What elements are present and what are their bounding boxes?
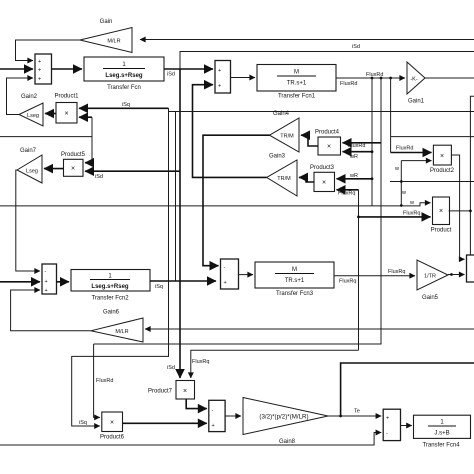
svg-text:Product5: Product5 [61,152,86,158]
svg-text:Transfer Fcn2: Transfer Fcn2 [91,296,129,302]
svg-text:iSd: iSd [167,72,175,78]
wire FluxRq vertical x=358.5 [358,190,360,350]
gain Gain (M/LR) top-left [80,19,132,53]
wire long horizontal line y=111.5 [169,111,474,113]
svg-text:Transfer Fcn: Transfer Fcn [107,85,141,91]
wire Sum7 output to Transfer Fcn4 [401,425,412,427]
svg-text:+: + [386,416,389,422]
wire Product5 output to Gain7 [44,168,64,170]
sum Sum block Sum3 (bottom left) [42,264,57,294]
svg-text:FluxRq: FluxRq [403,211,420,217]
wire w vertical x=401.3 from long w line [400,161,402,206]
svg-text:FluxRd: FluxRd [340,81,357,87]
wire w branch into Product1 input2 [79,116,92,118]
product Product1 [54,94,79,124]
gain Gain4 (TR/M) [270,111,300,152]
wire w vertical x=92 [91,117,93,163]
svg-text:Product4: Product4 [315,130,340,136]
svg-text:J.s+B: J.s+B [434,431,449,437]
svg-text:w: w [401,190,406,196]
product Product4 [315,130,341,156]
svg-text:Lseg.s+Rseg: Lseg.s+Rseg [91,284,129,290]
svg-text:FluxRd: FluxRd [396,146,413,152]
svg-text:-: - [224,265,226,271]
wire Transfer Fcn2 output iSq to Sum4 [150,280,216,282]
node junction dots on FluxRd wire [371,77,374,80]
wire Gain4 output down into Sum4 first input [203,135,270,266]
product Product5 [61,152,86,176]
wire long horizontal y=181.5 right portion [390,181,474,183]
svg-text:M: M [294,70,299,76]
svg-text:Gain: Gain [100,19,113,25]
wire Gain2 output loop to Sum1 third input [7,78,34,115]
wire feedback from right edge down to Sum5 top [470,96,474,255]
svg-text:FluxRd: FluxRd [348,143,365,149]
wire Sum2 output to Transfer Fcn1 [231,77,256,79]
svg-text:+: + [45,288,48,294]
wire vSq input from left edge [0,281,40,283]
wire iSq vertical x=170.5 [168,108,170,356]
svg-text:+: + [218,68,221,74]
sum Sum block Sum4 [221,259,239,289]
svg-text:Product6: Product6 [100,435,125,441]
wire Transfer Fcn output iSd to Sum2 [164,68,213,70]
svg-text:Gain6: Gain6 [103,310,120,316]
svg-text:FluxRd: FluxRd [96,378,113,384]
gain Gain6 (M/LR) [91,310,143,343]
svg-text:+: + [218,84,221,90]
node junction dot Gain8 output [339,415,342,418]
sum Sum block Sum6 [209,400,225,431]
svg-text:×: × [64,111,68,118]
node junction dot FluxRq tap [357,216,360,219]
gain Gain8 (3/2)*(p/2)*(M/LR) [243,398,328,446]
gain Gain2 (Lseg) [19,94,43,126]
wire Transfer Fcn1 output FluxRd to Gain1 [336,77,405,79]
wire Transfer Fcn3 output FluxRq to Gain5 [334,275,415,277]
svg-text:×: × [110,420,114,427]
wire Gain7 output down to Sum3 first input [16,170,40,271]
wire Gain3 output up into Sum2 second input [193,85,267,178]
svg-text:M/LR: M/LR [115,329,128,335]
gain Gain7 (Lseg) [17,148,42,183]
svg-text:TR/M: TR/M [277,176,291,182]
wire Sum4 output to Transfer Fcn3 [239,274,254,276]
wire Product3 output to Gain3 [299,177,314,182]
wire branch x=372 down to long w line y=205.9 [371,78,373,206]
wire Product6 output to Sum6 second input [123,422,207,424]
svg-text:Lseg: Lseg [27,113,39,119]
wire FluxRq into Product3 input2 [337,189,359,191]
wire iSd long vertical down to Product7 [179,69,181,378]
svg-text:iSq: iSq [122,102,130,108]
wire load feedback bottom line into Sum7 minus input [0,433,381,446]
svg-text:w: w [394,166,399,172]
wire Gain input long feedback y=39 [140,39,474,41]
svg-text:-K-: -K- [410,77,418,83]
product Product2 [430,145,455,174]
sum Sum block Sum1 [35,54,52,84]
svg-text:TR.s+1: TR.s+1 [287,81,307,87]
svg-text:Product7: Product7 [148,389,173,395]
svg-text:M: M [292,267,297,273]
svg-text:Product1: Product1 [54,94,79,100]
wire Gain6 output loop to Sum3 third input [11,290,91,331]
svg-text:Lseg.s+Rseg: Lseg.s+Rseg [105,73,143,79]
svg-text:iSd: iSd [167,365,175,371]
svg-text:×: × [183,388,187,395]
transfer-fcn Transfer Fcn4 1/(J.s+B) [414,415,471,448]
wire Gain output to Sum1 top input [16,40,81,61]
wire Gain5 output to Sum5 second input [448,274,465,276]
svg-text:wR: wR [349,173,358,179]
svg-text:-: - [386,431,388,437]
gain Gain1 (-K-) [407,62,425,105]
product Product (right lower) [431,197,452,234]
product Product6 [100,412,125,441]
wire Product7 output to Sum6 first input [186,399,207,409]
svg-text:Te: Te [354,409,360,415]
wire Product output to right edge vertical [449,210,471,212]
svg-text:FluxRq: FluxRq [192,359,209,365]
svg-text:×: × [439,208,443,215]
svg-text:+: + [224,280,227,286]
wire Gain8 output branch up and right along y=363 [341,363,474,416]
sum Sum block Sum2 (top middle) [215,61,231,94]
node junction dots on w vertical [400,180,403,183]
svg-text:+: + [212,423,215,429]
svg-text:FluxRq: FluxRq [388,269,405,275]
wire segment y=136.6 right portion [391,136,474,138]
node junction dots on x=372 [371,150,374,153]
wire FluxRq line y=346.5 to Product7 [191,350,359,378]
svg-text:iSq: iSq [155,284,163,290]
sum Sum block Sum5 (right edge) [467,255,474,282]
svg-text:M/LR: M/LR [107,39,120,45]
svg-text:Transfer Fcn1: Transfer Fcn1 [278,94,316,100]
transfer-fcn Transfer Fcn1 M/(TR.s+1) [257,65,336,100]
svg-text:Lseg: Lseg [26,169,38,175]
wire Product1 output to Gain2 [45,113,56,115]
gain Gain3 (TR/M) [267,154,297,197]
svg-text:FluxRq: FluxRq [339,279,356,285]
wire FluxRq into Product input2 [359,216,431,218]
wire wR into Product4 input2 [343,151,373,153]
svg-text:-: - [212,408,214,414]
wire vSd input from left edge [0,68,33,70]
transfer-fcn Transfer Fcn2 1/(Lseg.s+Rseg) [71,270,150,302]
svg-text:Transfer Fcn4: Transfer Fcn4 [422,443,460,449]
svg-text:TR.s+1: TR.s+1 [285,278,305,284]
svg-text:+: + [38,77,41,83]
svg-text:Transfer Fcn3: Transfer Fcn3 [276,291,314,297]
wire extra vertical x=175.5 [175,112,177,282]
svg-text:Product2: Product2 [430,168,455,174]
svg-text:Gain5: Gain5 [422,295,439,301]
wire Product4 output to Gain4 [301,135,318,146]
wire Sum1 output to Transfer Fcn [52,68,83,70]
svg-text:×: × [327,144,331,151]
wire w branch into Product5 input1 [85,162,92,164]
wire Gain6 input long line y=329 [145,328,474,330]
svg-text:Gain7: Gain7 [20,148,37,154]
svg-text:Gain8: Gain8 [279,439,296,445]
wire iSq into Product1 input1 [79,107,169,109]
svg-text:iSd: iSd [95,174,103,180]
wire Sum6 output to Gain8 [225,415,241,417]
wire iSd branch up and right along y=51.5 [180,52,474,70]
wire Gain1 output to right edge [425,77,474,79]
svg-text:Gain2: Gain2 [21,94,38,100]
svg-text:Gain3: Gain3 [269,154,286,160]
wire Gain8 output Te to Sum7 [328,415,381,417]
wire FluxRd branch x=381 long vertical down [94,78,381,344]
wire iSq feedback to Product6 input2 [72,281,169,426]
svg-text:+: + [38,68,41,74]
sum Sum block Sum7 [383,409,400,440]
svg-text:TR/M: TR/M [280,134,294,140]
wire FluxRd line y=342 down x=93.6 to Product6 [94,344,100,417]
wire FluxRd into Product4 input1 [343,142,382,144]
wire w into Product2 input2 [401,160,431,162]
wire iSd into Product5 input2 [85,170,180,172]
node junction dot Product output [469,210,472,213]
product Product7 [148,381,195,400]
svg-text:Gain1: Gain1 [408,99,425,105]
wire FluxRd branch x=390.6 down to Product2 [390,78,392,153]
svg-text:iSq: iSq [79,420,87,426]
svg-text:wR: wR [349,154,358,160]
svg-text:×: × [440,153,444,160]
product Product3 [310,165,335,192]
wire FluxRd into Product2 input1 [391,152,432,154]
transfer-fcn Transfer Fcn 1/(Lseg.s+Rseg) [84,57,164,91]
svg-text:FluxRq: FluxRq [338,191,355,197]
wire Product2 output down to Sum5 first input [451,155,464,259]
svg-text:+: + [45,279,48,285]
wire long w line y=205.9 into Product input1 [0,203,431,206]
node junction dot on Gain5 output [450,273,453,276]
svg-text:1/TR: 1/TR [424,274,436,280]
svg-text:iSd: iSd [352,44,360,50]
wire Sum3 output to Transfer Fcn2 [57,281,70,283]
svg-text:×: × [71,166,75,173]
svg-text:Gain4: Gain4 [273,111,290,117]
wire w input from left edge y=136.6 [0,136,92,138]
svg-text:+: + [38,59,41,65]
svg-text:Product: Product [431,228,452,234]
wire wR into Product3 input1 [337,178,373,180]
svg-text:Product3: Product3 [310,165,335,171]
transfer-fcn Transfer Fcn3 M/(TR.s+1) [255,262,334,297]
svg-text:(3/2)*(p/2)*(M/LR): (3/2)*(p/2)*(M/LR) [259,414,308,421]
svg-text:w: w [409,200,414,206]
svg-text:-: - [45,269,47,275]
svg-text:×: × [322,180,326,187]
gain Gain5 (1/TR) [417,260,448,301]
